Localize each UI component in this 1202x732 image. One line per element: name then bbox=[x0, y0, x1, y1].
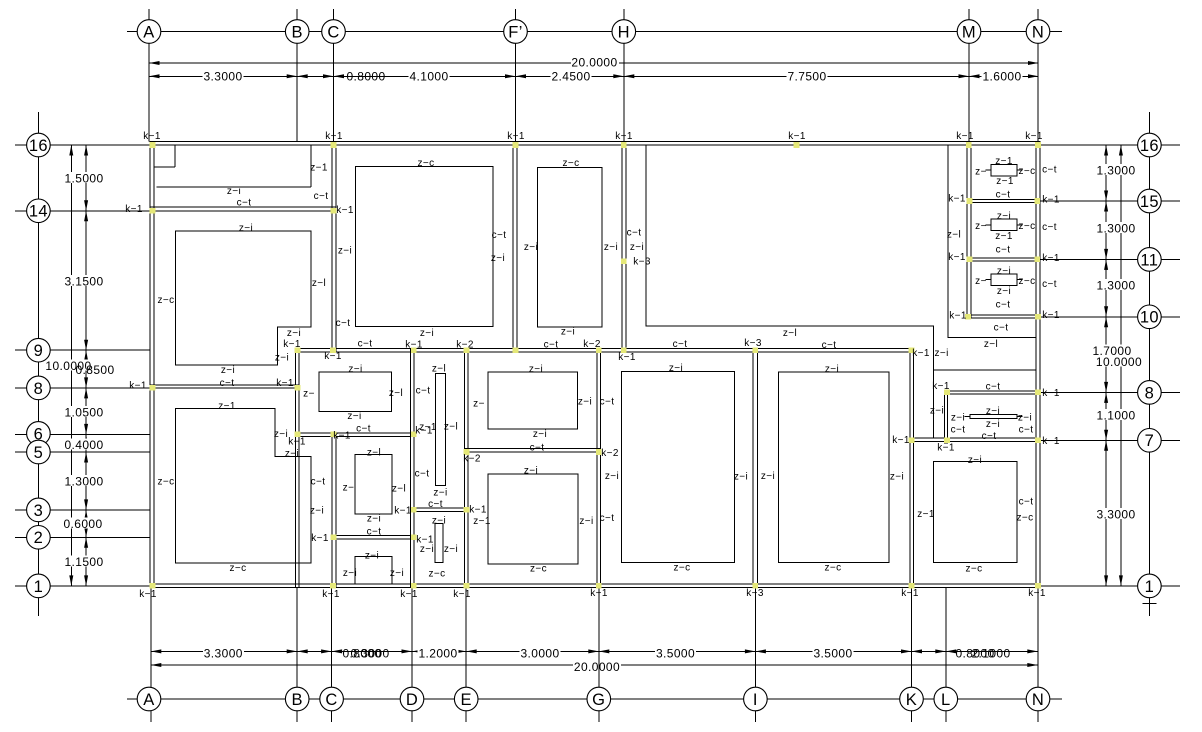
bottom overall dimension 20.0000 bbox=[151, 664, 573, 666]
svg-text:k−1: k−1 bbox=[333, 431, 351, 442]
wall row 8 (A-B) bbox=[150, 385, 299, 388]
svg-text:z−i: z−i bbox=[524, 466, 538, 477]
right dim text 10.0000 bbox=[1095, 356, 1143, 367]
grid bubble N (bottom) bbox=[1026, 687, 1050, 711]
column k-2 at E/9 bbox=[464, 347, 470, 353]
svg-text:z−i: z−i bbox=[561, 327, 575, 338]
svg-text:14: 14 bbox=[29, 203, 48, 221]
svg-text:z−i: z−i bbox=[533, 429, 547, 440]
right dim text 1.1000 bbox=[1096, 409, 1137, 420]
room A-B/14-8 footing outline bbox=[175, 231, 311, 365]
svg-text:3.0000: 3.0000 bbox=[520, 646, 559, 660]
bottom dim text 3.3000 bbox=[203, 647, 244, 658]
svg-text:c−t: c−t bbox=[1042, 279, 1057, 290]
svg-text:c−t: c−t bbox=[1019, 497, 1034, 508]
svg-text:1.3000: 1.3000 bbox=[1096, 278, 1135, 292]
svg-text:z−l: z−l bbox=[783, 328, 797, 339]
wall row 8 (L-N) bbox=[944, 391, 1039, 394]
svg-text:c−t: c−t bbox=[600, 397, 615, 408]
svg-text:z−i: z−i bbox=[287, 328, 301, 339]
top overall dimension 20.0000 bbox=[149, 62, 571, 64]
svg-text:z−i: z−i bbox=[239, 223, 253, 234]
svg-text:c−t: c−t bbox=[996, 245, 1011, 256]
svg-text:z−i: z−i bbox=[367, 514, 381, 525]
column k-1 at M/15 bbox=[967, 198, 973, 204]
svg-text:z−i: z−i bbox=[986, 406, 1000, 417]
M-N rooms west inner face line bbox=[948, 145, 1036, 337]
svg-text:k−1: k−1 bbox=[336, 205, 354, 216]
line z-i east of K bbox=[933, 369, 1036, 371]
svg-text:c−t: c−t bbox=[314, 191, 329, 202]
svg-text:c−t: c−t bbox=[986, 382, 1001, 393]
svg-text:k−1: k−1 bbox=[324, 351, 342, 362]
svg-text:z−c: z−c bbox=[157, 295, 174, 306]
svg-text:k−1: k−1 bbox=[143, 131, 161, 142]
svg-text:k−1: k−1 bbox=[901, 588, 919, 599]
column k-2 at G/5 bbox=[596, 449, 602, 455]
svg-text:1.3000: 1.3000 bbox=[1096, 221, 1135, 235]
column k-1 at D/9 bbox=[411, 347, 417, 353]
svg-text:A: A bbox=[143, 691, 154, 709]
svg-text:c−t: c−t bbox=[996, 300, 1011, 311]
svg-text:z−i: z−i bbox=[761, 471, 775, 482]
svg-text:z−i: z−i bbox=[669, 363, 683, 374]
grid bubble C (top) bbox=[322, 20, 346, 44]
column k-1 at D/2 bbox=[411, 535, 417, 541]
column k-1 at C/16 bbox=[331, 142, 337, 148]
wall row 9 bbox=[296, 348, 914, 351]
svg-text:I: I bbox=[753, 691, 758, 709]
column k-1 at N/1 bbox=[1035, 583, 1041, 589]
left dim text 0.4000 bbox=[64, 439, 105, 450]
svg-text:K: K bbox=[906, 691, 917, 709]
column k-1 at N/8 bbox=[1035, 390, 1041, 396]
bottom dim text 3.0000 bbox=[520, 647, 561, 658]
grid line row 5 (left) bbox=[15, 451, 27, 453]
svg-text:z−i: z−i bbox=[275, 353, 289, 364]
svg-text:k−1: k−1 bbox=[948, 252, 966, 263]
svg-text:z−l: z−l bbox=[947, 230, 961, 241]
right dim text 1.7000 bbox=[1092, 345, 1133, 356]
wall grid L (vertical) bbox=[944, 391, 947, 443]
svg-text:3.5000: 3.5000 bbox=[656, 646, 695, 660]
right dim text 1.3000 (16-15) bbox=[1096, 164, 1137, 175]
svg-text:N: N bbox=[1032, 691, 1044, 709]
grid bubble 14 (left) bbox=[27, 199, 51, 223]
svg-text:z−i: z−i bbox=[997, 266, 1011, 277]
svg-text:1.0500: 1.0500 bbox=[64, 405, 103, 419]
column k-1 at C/2 bbox=[331, 535, 337, 541]
wall row 3 (D-E) bbox=[410, 508, 468, 512]
svg-text:z−c: z−c bbox=[1018, 276, 1035, 287]
grid line G (bottom) bbox=[598, 588, 600, 688]
grid line row 16 (right) bbox=[1040, 144, 1138, 146]
svg-text:c−t: c−t bbox=[356, 424, 371, 435]
grid bubble 16 (right) bbox=[1138, 133, 1162, 157]
grid line B (bottom) bbox=[296, 588, 298, 688]
column k-1 at M/11 bbox=[967, 257, 973, 263]
svg-text:B: B bbox=[291, 691, 302, 709]
svg-text:z−i: z−i bbox=[986, 419, 1000, 430]
svg-text:z−i: z−i bbox=[390, 568, 404, 579]
grid line row 10 (right) bbox=[1040, 316, 1138, 318]
svg-text:0.4000: 0.4000 bbox=[64, 438, 103, 452]
left dim text 10.0000 bbox=[45, 360, 93, 371]
grid bubble 10 (right) bbox=[1138, 305, 1162, 329]
svg-text:0.3000: 0.3000 bbox=[350, 646, 389, 660]
svg-text:c−t: c−t bbox=[311, 477, 326, 488]
svg-text:9: 9 bbox=[34, 342, 44, 360]
svg-text:z−i: z−i bbox=[491, 253, 505, 264]
room F'-H/16-9 footing outline bbox=[538, 168, 603, 328]
column k-1 at D/6 bbox=[411, 432, 417, 438]
svg-text:8: 8 bbox=[34, 380, 44, 398]
svg-text:z−c: z−c bbox=[1018, 166, 1035, 177]
room C-F'/16-9 footing outline bbox=[356, 167, 494, 327]
wall grid D (vertical) bbox=[410, 348, 414, 587]
column k-1 at N/16 bbox=[1035, 142, 1041, 148]
wall row 7 (K-N) bbox=[910, 438, 1040, 442]
column k-1 at G/1 bbox=[596, 583, 602, 589]
svg-text:C: C bbox=[327, 23, 339, 41]
grid line C (bottom) bbox=[331, 588, 333, 688]
svg-text:k−1: k−1 bbox=[590, 588, 608, 599]
wall grid G (vertical) bbox=[597, 348, 601, 587]
svg-text:z−i: z−i bbox=[578, 397, 592, 408]
svg-text:z−1: z−1 bbox=[995, 156, 1013, 167]
footing in room K-N/7-1 bbox=[934, 462, 1018, 563]
wall row 15 (M-N) bbox=[967, 200, 1040, 203]
svg-text:20.0000: 20.0000 bbox=[571, 55, 617, 69]
svg-text:1.5000: 1.5000 bbox=[64, 171, 103, 185]
column k-1 at B/8 bbox=[295, 385, 301, 391]
svg-text:z−l: z−l bbox=[389, 388, 403, 399]
bottom dim text 1.2000 bbox=[418, 647, 459, 658]
svg-text:c−t: c−t bbox=[951, 425, 966, 436]
svg-text:z−c: z−c bbox=[673, 563, 690, 574]
grid bubble G (bottom) bbox=[587, 687, 611, 711]
svg-text:z−i: z−i bbox=[274, 429, 288, 440]
column k-1 at C/14 bbox=[331, 208, 337, 214]
svg-text:z−: z− bbox=[473, 399, 485, 410]
grid bubble 6 (left) bbox=[27, 422, 51, 446]
svg-text:3.3000: 3.3000 bbox=[204, 646, 243, 660]
svg-text:z−c: z−c bbox=[824, 563, 841, 574]
svg-text:k−1: k−1 bbox=[507, 131, 525, 142]
svg-text:1.1000: 1.1000 bbox=[1096, 408, 1135, 422]
svg-text:c−t: c−t bbox=[627, 228, 642, 239]
column k-1 at A/1 bbox=[150, 583, 156, 589]
svg-text:15: 15 bbox=[1140, 193, 1159, 211]
grid line row 6 (left) bbox=[15, 433, 27, 435]
right dim text 1.3000 (15-11) bbox=[1096, 222, 1137, 233]
column k-1 at K/7 bbox=[909, 438, 915, 444]
svg-text:10.0000: 10.0000 bbox=[1096, 355, 1142, 369]
grid line row 15 (right) bbox=[1040, 200, 1138, 202]
column k-1 at E/1 bbox=[464, 583, 470, 589]
grid line I (bottom) bbox=[754, 588, 756, 688]
svg-text:k−1: k−1 bbox=[1042, 195, 1060, 206]
left dim text 1.3000 bbox=[64, 475, 105, 486]
svg-text:z−l: z−l bbox=[984, 339, 998, 350]
right segment dimension line bbox=[1105, 145, 1107, 201]
svg-text:c−t: c−t bbox=[492, 230, 507, 241]
bottom dim text 3.5000 (I-K) bbox=[813, 647, 854, 658]
top dim text 4.1000 bbox=[409, 70, 450, 81]
hall H-M inner face lines bbox=[646, 145, 933, 438]
grid bubble M (top) bbox=[957, 20, 981, 44]
svg-text:c−t: c−t bbox=[237, 198, 252, 209]
outer wall (perimeter) bbox=[150, 141, 1040, 587]
svg-text:k−2: k−2 bbox=[463, 454, 481, 465]
column k-1 at F'/9 bbox=[513, 347, 519, 353]
top dim text 1.6000 bbox=[982, 70, 1023, 81]
column k-1 at L/7 bbox=[944, 438, 950, 444]
svg-text:k−1: k−1 bbox=[394, 506, 412, 517]
svg-text:k−1: k−1 bbox=[405, 340, 423, 351]
grid bubble N (top) bbox=[1026, 20, 1050, 44]
svg-text:k−1: k−1 bbox=[912, 348, 930, 359]
wall grid F' (vertical) bbox=[513, 141, 517, 351]
column k-1 at M/16 bbox=[966, 142, 972, 148]
grid bubble 3 (left) bbox=[27, 498, 51, 522]
column k-1 at A/14 bbox=[150, 208, 156, 214]
entry notch at bottom C-D bbox=[355, 557, 392, 584]
bottom segment dimension line bbox=[151, 650, 297, 652]
wall grid I (vertical) bbox=[753, 348, 757, 587]
bottom dim text 3.5000 (G-I) bbox=[655, 647, 696, 658]
svg-text:z−i: z−i bbox=[432, 516, 446, 527]
column k-1 at H/9 bbox=[621, 347, 627, 353]
svg-text:0.6000: 0.6000 bbox=[63, 517, 102, 531]
column k-1 at K/1 bbox=[909, 583, 915, 589]
grid bubble 8 (right) bbox=[1138, 381, 1162, 405]
svg-text:z−i: z−i bbox=[997, 211, 1011, 222]
svg-text:z−i: z−i bbox=[579, 516, 593, 527]
svg-text:k−1: k−1 bbox=[325, 131, 343, 142]
footing in room E-G/9-5 bbox=[488, 372, 578, 429]
svg-text:z−: z− bbox=[975, 276, 987, 287]
svg-text:8: 8 bbox=[1145, 384, 1155, 402]
column k-3 at H/11 bbox=[621, 258, 627, 264]
svg-text:c−t: c−t bbox=[416, 386, 431, 397]
svg-text:k−1: k−1 bbox=[288, 437, 306, 448]
wall grid K (vertical) bbox=[910, 348, 914, 587]
svg-text:z−i: z−i bbox=[338, 246, 352, 257]
column k-1 at H/16 bbox=[621, 142, 627, 148]
svg-text:z−i: z−i bbox=[951, 413, 965, 424]
grid line row 11 (right) bbox=[1040, 258, 1138, 260]
column k-1 at B/9 bbox=[295, 347, 301, 353]
svg-text:L: L bbox=[941, 691, 951, 709]
svg-text:c−t: c−t bbox=[367, 527, 382, 538]
svg-text:z−l: z−l bbox=[312, 278, 326, 289]
svg-text:k−3: k−3 bbox=[746, 588, 764, 599]
thin footing in room L-N/8-7 bbox=[970, 414, 1017, 418]
svg-text:k−2: k−2 bbox=[456, 340, 474, 351]
grid line D (bottom) bbox=[411, 588, 413, 688]
svg-text:k−1: k−1 bbox=[788, 131, 806, 142]
grid line row 16 (left) bbox=[15, 144, 27, 146]
svg-text:k−1: k−1 bbox=[937, 443, 955, 454]
svg-text:z−1: z−1 bbox=[218, 401, 236, 412]
svg-text:z−c: z−c bbox=[530, 564, 547, 575]
svg-text:z−c: z−c bbox=[1016, 513, 1033, 524]
grid line row 1 (left) bbox=[15, 585, 27, 587]
svg-text:z−i: z−i bbox=[420, 328, 434, 339]
right overall dimension line 10.0000 bbox=[1120, 145, 1122, 586]
grid bubble B (top) bbox=[285, 20, 309, 44]
svg-text:z−i: z−i bbox=[420, 544, 434, 555]
grid bubble H (top) bbox=[612, 20, 636, 44]
svg-text:k−1: k−1 bbox=[125, 204, 143, 215]
svg-text:z−i: z−i bbox=[604, 242, 618, 253]
grid bubble 9 (left) bbox=[27, 338, 51, 362]
wall row 5 (E-G) bbox=[465, 449, 601, 453]
grid line C (top) bbox=[333, 9, 335, 20]
svg-text:N: N bbox=[1032, 23, 1044, 41]
svg-text:M: M bbox=[962, 23, 976, 41]
grid bubble 5 (left) bbox=[27, 440, 51, 464]
svg-text:z−i: z−i bbox=[734, 472, 748, 483]
svg-text:k−1: k−1 bbox=[1042, 388, 1060, 399]
svg-text:k−1: k−1 bbox=[1042, 253, 1060, 264]
wall grid B (vertical) bbox=[296, 348, 300, 587]
svg-text:z−i: z−i bbox=[227, 186, 241, 197]
svg-text:k−1: k−1 bbox=[948, 194, 966, 205]
column k-1 at F'/16 bbox=[513, 142, 519, 148]
grid bubble 8 (left) bbox=[27, 376, 51, 400]
svg-text:z−: z− bbox=[975, 167, 987, 178]
grid bubble 1 (left) bbox=[27, 574, 51, 598]
svg-text:3.5000: 3.5000 bbox=[813, 646, 852, 660]
svg-text:7.7500: 7.7500 bbox=[787, 69, 826, 83]
svg-text:z−1: z−1 bbox=[917, 509, 935, 520]
svg-text:k−1: k−1 bbox=[618, 352, 636, 363]
svg-text:c−t: c−t bbox=[415, 469, 430, 480]
grid bubble C (bottom) bbox=[320, 687, 344, 711]
svg-text:z−i: z−i bbox=[343, 568, 357, 579]
svg-text:c−t: c−t bbox=[544, 340, 559, 351]
tick below right bubble 1 bbox=[1143, 603, 1157, 605]
left overall dimension line 10.0000 bbox=[70, 145, 72, 586]
svg-text:z−i: z−i bbox=[529, 364, 543, 375]
svg-text:1.1500: 1.1500 bbox=[64, 555, 103, 569]
svg-text:3.3000: 3.3000 bbox=[203, 69, 242, 83]
svg-text:k−1: k−1 bbox=[276, 378, 294, 389]
column k-1 at D/1 bbox=[411, 583, 417, 589]
footing in room B-D/9-6 bbox=[319, 372, 392, 412]
wall row 14 bbox=[150, 207, 336, 211]
svg-text:c−t: c−t bbox=[358, 339, 373, 350]
grid line row 9 (left) bbox=[15, 349, 27, 351]
svg-text:z−c: z−c bbox=[417, 158, 434, 169]
svg-text:A: A bbox=[143, 23, 154, 41]
svg-text:k−1: k−1 bbox=[1028, 588, 1046, 599]
svg-text:k−1: k−1 bbox=[322, 589, 340, 600]
svg-text:2: 2 bbox=[34, 529, 44, 547]
svg-text:z−i: z−i bbox=[433, 488, 447, 499]
grid line row 8 (right) bbox=[1040, 391, 1138, 393]
column k-1 at E/3 bbox=[464, 507, 470, 513]
top dim text 7.7500 bbox=[787, 70, 828, 81]
svg-text:z−i: z−i bbox=[825, 364, 839, 375]
svg-text:16: 16 bbox=[29, 137, 48, 155]
grid bubble L (bottom) bbox=[934, 687, 958, 711]
grid bubble 15 (right) bbox=[1138, 189, 1162, 213]
footing in room M-N/11-10 bbox=[991, 274, 1017, 286]
column k-1 at N/10 bbox=[1035, 314, 1041, 320]
svg-text:7: 7 bbox=[1145, 432, 1155, 450]
svg-text:k−1: k−1 bbox=[129, 381, 147, 392]
grid line N (bottom) bbox=[1037, 588, 1039, 688]
svg-text:c−t: c−t bbox=[982, 431, 997, 442]
grid bubble K (bottom) bbox=[900, 687, 924, 711]
svg-text:k−2: k−2 bbox=[583, 339, 601, 350]
svg-text:3: 3 bbox=[34, 502, 44, 520]
svg-text:1.6000: 1.6000 bbox=[982, 69, 1021, 83]
grid line row 3 (left) bbox=[15, 509, 27, 511]
svg-text:k−1: k−1 bbox=[139, 589, 157, 600]
svg-text:z−i: z−i bbox=[285, 449, 299, 460]
grid bubble D (bottom) bbox=[400, 687, 424, 711]
svg-text:c−t: c−t bbox=[530, 443, 545, 454]
svg-text:c−t: c−t bbox=[428, 499, 443, 510]
corner pier square at A/16 bbox=[174, 145, 176, 167]
svg-text:c−t: c−t bbox=[996, 190, 1011, 201]
footing in room E-G/5-1 bbox=[488, 474, 578, 564]
svg-text:D: D bbox=[406, 691, 418, 709]
svg-text:z−i: z−i bbox=[934, 348, 948, 359]
svg-text:z−c: z−c bbox=[229, 563, 246, 574]
grid line row 7 (right) bbox=[1040, 439, 1138, 441]
svg-text:k−1: k−1 bbox=[453, 589, 471, 600]
svg-text:k−1: k−1 bbox=[469, 505, 487, 516]
svg-text:k−1: k−1 bbox=[956, 131, 974, 142]
grid bubble I (bottom) bbox=[744, 687, 768, 711]
grid bubble F’ (top) bbox=[504, 20, 528, 44]
svg-text:c−t: c−t bbox=[673, 339, 688, 350]
column k-3 at I/9 bbox=[753, 347, 759, 353]
svg-text:c−t: c−t bbox=[994, 323, 1009, 334]
grid line row 8 (left) bbox=[15, 387, 27, 389]
grid bubble A (top) bbox=[137, 20, 161, 44]
svg-text:1.2000: 1.2000 bbox=[418, 646, 457, 660]
svg-text:z−: z− bbox=[975, 221, 987, 232]
footing in room C-D/6-2 bbox=[355, 455, 392, 515]
grid line N (top) bbox=[1037, 9, 1039, 20]
svg-text:1: 1 bbox=[1145, 578, 1155, 596]
column k-3 at I/1 bbox=[753, 583, 759, 589]
svg-text:c−t: c−t bbox=[1042, 165, 1057, 176]
column k-2 at E/5 bbox=[464, 449, 470, 455]
column k-1 at N/7 bbox=[1035, 438, 1041, 444]
svg-text:z−i: z−i bbox=[221, 365, 235, 376]
svg-text:z−: z− bbox=[343, 483, 355, 494]
svg-text:2.1000: 2.1000 bbox=[971, 646, 1010, 660]
column k-1 at N/11 bbox=[1035, 257, 1041, 263]
svg-text:z−l: z−l bbox=[392, 484, 406, 495]
svg-text:z−1: z−1 bbox=[419, 422, 437, 433]
svg-text:z−c: z−c bbox=[157, 477, 174, 488]
svg-text:c−t: c−t bbox=[220, 378, 235, 389]
grid line row 14 (left) bbox=[15, 210, 27, 212]
grid line A (bottom) bbox=[150, 588, 152, 688]
wall grid H (vertical) bbox=[622, 141, 626, 351]
wall row 11 (M-N) bbox=[967, 258, 1040, 261]
svg-text:4.1000: 4.1000 bbox=[409, 69, 448, 83]
svg-text:k−1: k−1 bbox=[615, 131, 633, 142]
